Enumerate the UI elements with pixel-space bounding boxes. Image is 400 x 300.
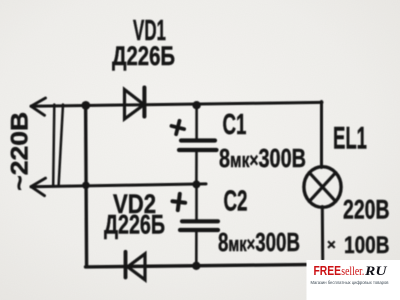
wire vertical branch (input to bottom rail) — [86, 105, 87, 267]
AC input arrow (bottom terminal) — [31, 178, 46, 196]
svg-text:×: × — [327, 237, 336, 254]
polarity + (C2) — [171, 193, 186, 211]
wire bottom rail — [86, 265, 307, 267]
svg-text:Д226Б: Д226Б — [104, 210, 165, 240]
junction node (top rail / vertical branch) — [81, 101, 90, 110]
svg-text:8мк×300В: 8мк×300В — [219, 145, 306, 173]
svg-text:C2: C2 — [224, 186, 248, 218]
svg-text:C1: C1 — [223, 109, 247, 141]
svg-text:~220В: ~220В — [7, 112, 34, 191]
wire lamp bottom lead — [321, 207, 324, 260]
svg-text:8мк×300В: 8мк×300В — [218, 229, 300, 257]
diode VD1 — [125, 88, 145, 120]
diode VD2 — [126, 252, 146, 280]
svg-text:FREE: FREE — [314, 264, 342, 278]
svg-text:Д226Б: Д226Б — [112, 41, 175, 71]
capacitor plates (input, unlabeled) — [53, 105, 63, 186]
svg-text:100В: 100В — [344, 232, 390, 259]
capacitor C1 — [179, 105, 217, 184]
wire lamp top lead — [320, 102, 323, 168]
svg-text:seller.: seller. — [341, 264, 364, 278]
svg-text:EL1: EL1 — [333, 120, 367, 156]
wire top rail — [31, 102, 322, 106]
value ×100В (EL1) — [327, 232, 390, 259]
watermark FREEseller.RU — [307, 260, 400, 300]
junction node (middle rail / vertical branch) — [82, 182, 90, 190]
svg-text:220В: 220В — [343, 194, 390, 224]
junction node (middle rail / C1-C2) — [192, 180, 200, 188]
svg-text:Магазин бесплатных цифровых то: Магазин бесплатных цифровых товаров — [311, 280, 389, 286]
capacitor C2 — [180, 184, 218, 266]
wire middle rail — [31, 184, 206, 187]
AC input arrow (top terminal) — [31, 98, 46, 115]
svg-text:RU: RU — [364, 263, 387, 278]
junction node (top rail / C1) — [192, 101, 200, 109]
junction node (bottom rail / C2) — [192, 262, 200, 270]
lamp EL1 — [304, 167, 341, 208]
polarity + (C1) — [170, 119, 186, 136]
